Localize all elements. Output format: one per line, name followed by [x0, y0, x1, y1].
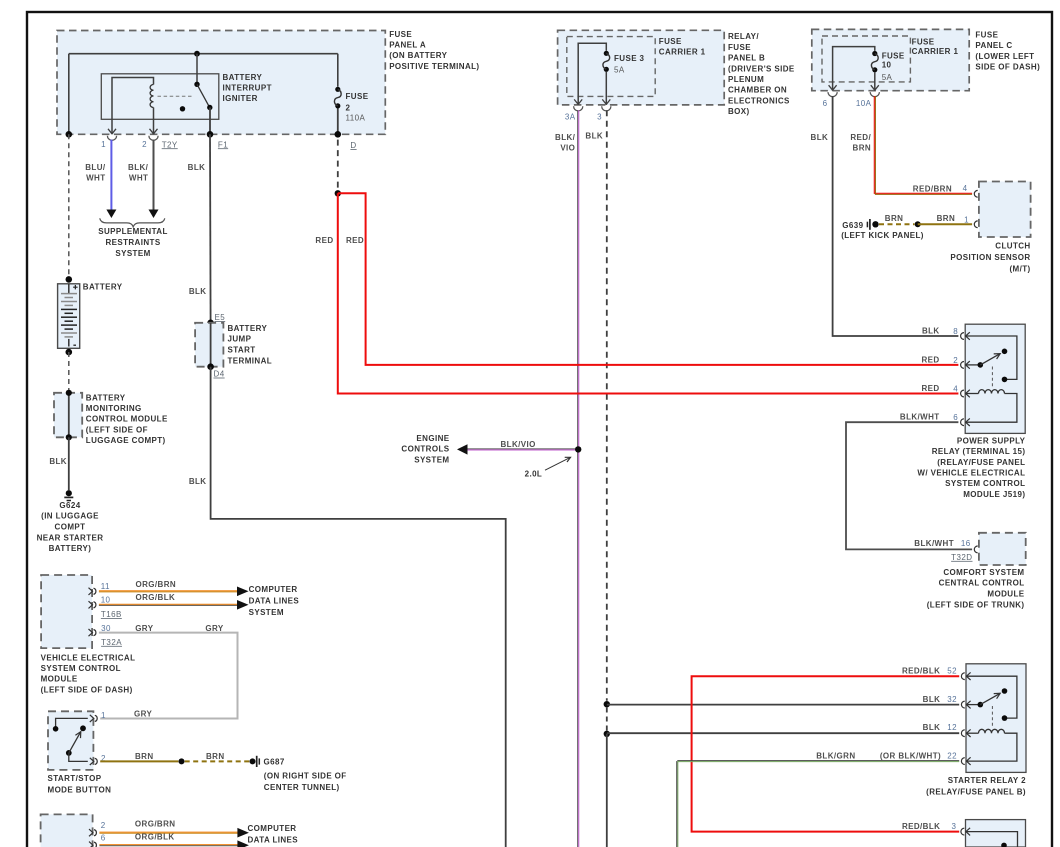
node D4: [207, 363, 224, 378]
svg-text:SYSTEM CONTROL: SYSTEM CONTROL: [41, 664, 121, 673]
pin 1 (clutch sensor): [974, 221, 977, 228]
vehicle electrical system control module label: [41, 653, 136, 694]
node: red feed split: [335, 190, 341, 196]
svg-text:RELAY (TERMINAL 15): RELAY (TERMINAL 15): [932, 447, 1026, 456]
power supply relay label: [917, 436, 1025, 499]
starter relay 2 label: [926, 776, 1026, 797]
ground G687 label: [264, 757, 347, 792]
svg-text:POSITIVE TERMINAL): POSITIVE TERMINAL): [389, 62, 479, 71]
svg-text:4: 4: [953, 385, 958, 394]
svg-text:FUSE: FUSE: [659, 37, 682, 46]
svg-text:G624: G624: [59, 501, 80, 510]
svg-text:(ON RIGHT SIDE OF: (ON RIGHT SIDE OF: [264, 771, 347, 780]
wire RED/BRN (fuse 10 to clutch sensor): [850, 96, 972, 194]
wire BLK/WHT (pin 2 to SRS): [128, 140, 158, 218]
node: bus junction: [194, 51, 200, 57]
node E5: [207, 313, 225, 326]
svg-text:CARRIER 1: CARRIER 1: [912, 47, 959, 56]
fuse panel A box: [57, 31, 385, 135]
svg-text:INTERRUPT: INTERRUPT: [223, 84, 272, 93]
terminal T32A: [101, 638, 122, 647]
svg-text:3A: 3A: [565, 112, 576, 121]
svg-text:G687: G687: [264, 757, 285, 766]
svg-text:BATTERY: BATTERY: [223, 73, 263, 82]
wire RED/BLK (pin 52 loop to bottom relay): [692, 676, 960, 831]
svg-text:RED: RED: [315, 236, 333, 245]
svg-text:BLK: BLK: [585, 131, 603, 140]
battery monitoring control module label: [86, 393, 168, 445]
wire BRN dashed (to G687): [185, 760, 250, 762]
svg-text:ORG/BRN: ORG/BRN: [135, 820, 176, 829]
power supply relay box: [965, 324, 1025, 433]
svg-text:DATA LINES: DATA LINES: [248, 836, 299, 845]
svg-text:START/STOP: START/STOP: [48, 774, 102, 783]
fuse carrier 1 box (panel B): [567, 37, 655, 97]
fuse panel A label: [389, 30, 479, 71]
node: splice to starter relay pin 12: [604, 731, 610, 737]
wire BLK dashed (node D down): [337, 140, 339, 190]
svg-text:RED/BLK: RED/BLK: [902, 822, 940, 831]
svg-text:BRN: BRN: [885, 214, 904, 223]
svg-text:BATTERY: BATTERY: [86, 393, 126, 402]
pin 16 / T32D: [951, 546, 978, 562]
svg-text:ORG/BRN: ORG/BRN: [136, 580, 177, 589]
svg-text:ORG/BLK: ORG/BLK: [135, 832, 175, 841]
ground G624: [64, 490, 73, 500]
pin 6 / wire ORG/BLK (bottom): [89, 832, 249, 847]
svg-text:SUPPLEMENTAL: SUPPLEMENTAL: [98, 227, 168, 236]
fuse panel C box: [812, 29, 969, 90]
svg-text:COMFORT SYSTEM: COMFORT SYSTEM: [943, 568, 1024, 577]
svg-text:T32A: T32A: [101, 638, 122, 647]
battery B1: [58, 276, 80, 355]
battery interrupt igniter label: [223, 73, 272, 103]
pin 30 / wire GRY: [89, 624, 238, 719]
arrow to engine controls: [457, 444, 468, 454]
node: BLK/VIO tap: [575, 446, 581, 452]
svg-text:(RELAY/FUSE PANEL B): (RELAY/FUSE PANEL B): [926, 787, 1026, 796]
pin 32: [923, 695, 971, 708]
wire BLK/VIO (pin 3A down): [555, 110, 579, 847]
svg-text:(ON BATTERY: (ON BATTERY: [389, 51, 447, 60]
svg-text:CENTER TUNNEL): CENTER TUNNEL): [264, 783, 340, 792]
svg-text:GRY: GRY: [205, 624, 224, 633]
svg-text:6: 6: [823, 99, 828, 108]
svg-text:POSITION SENSOR: POSITION SENSOR: [950, 253, 1030, 262]
svg-text:COMPUTER: COMPUTER: [249, 585, 298, 594]
svg-text:RED: RED: [922, 355, 940, 364]
svg-text:POWER SUPPLY: POWER SUPPLY: [957, 436, 1026, 445]
terminal T16B: [101, 610, 122, 619]
svg-text:T2Y: T2Y: [162, 140, 178, 149]
fuse F10 5A: [871, 51, 878, 91]
svg-text:BLK: BLK: [922, 326, 940, 335]
node: panel A left exit: [66, 131, 73, 138]
svg-text:FUSE: FUSE: [975, 31, 998, 40]
wire RED (split to relay pin 2): [338, 193, 959, 365]
svg-text:6: 6: [101, 833, 106, 842]
svg-text:MONITORING: MONITORING: [86, 404, 142, 413]
pin 6 (panel C): [823, 85, 838, 108]
svg-text:ORG/BLK: ORG/BLK: [136, 593, 176, 602]
svg-text:11: 11: [101, 582, 110, 591]
starter relay 1 box (partial): [966, 820, 1026, 847]
clutch position sensor label: [950, 241, 1030, 273]
ground G624 label: [37, 501, 104, 553]
svg-text:2: 2: [101, 821, 106, 830]
node F1: [207, 131, 229, 149]
svg-text:MODULE: MODULE: [987, 590, 1024, 599]
pin 6: [900, 413, 970, 426]
svg-text:BRN: BRN: [206, 752, 225, 761]
svg-text:FUSE: FUSE: [912, 37, 935, 46]
svg-text:BLK/WHT: BLK/WHT: [900, 413, 940, 422]
wire: fuse 10 feed loop: [833, 47, 875, 91]
svg-text:30: 30: [101, 624, 111, 633]
svg-text:RED/: RED/: [850, 133, 871, 142]
comfort system central control module label: [927, 568, 1025, 609]
fuse carrier 1 box (panel C): [822, 36, 910, 82]
pin 2: [922, 355, 970, 368]
wire BLK (splice to pin 12): [607, 732, 959, 734]
wire BLK (splice to pin 32): [607, 704, 959, 706]
pin 3 (bottom relay): [902, 822, 970, 835]
switch (starter relay 2): [966, 688, 1007, 707]
svg-text:COMPUTER: COMPUTER: [248, 824, 297, 833]
pin 4 (clutch sensor): [974, 190, 977, 197]
svg-text:FUSE 3: FUSE 3: [614, 54, 645, 63]
svg-text:2: 2: [346, 103, 351, 112]
svg-text:(LEFT SIDE OF DASH): (LEFT SIDE OF DASH): [41, 685, 133, 694]
svg-text:BRN: BRN: [853, 144, 872, 153]
fuse F2 label: [346, 92, 369, 122]
vehicle electrical system control module box: [41, 575, 92, 648]
start/stop mode button label: [48, 774, 112, 794]
ground G639: [842, 219, 878, 230]
svg-text:VIO: VIO: [560, 143, 575, 152]
svg-text:RED/BRN: RED/BRN: [913, 185, 952, 194]
battery label: [83, 282, 123, 291]
svg-text:BLK: BLK: [923, 723, 941, 732]
svg-text:D: D: [350, 141, 356, 150]
relay/fuse panel B box: [558, 30, 725, 105]
svg-text:3: 3: [597, 112, 602, 121]
pin 2 / wire ORG/BRN (bottom): [89, 820, 249, 838]
svg-text:VEHICLE ELECTRICAL: VEHICLE ELECTRICAL: [41, 653, 136, 662]
fuse carrier 1 label (panel C): [912, 37, 959, 56]
svg-text:DATA LINES: DATA LINES: [249, 597, 300, 606]
fuse F3 5A: [603, 51, 610, 105]
wire BLK to G624: [49, 437, 68, 490]
svg-text:8: 8: [953, 327, 958, 336]
svg-text:PANEL A: PANEL A: [389, 41, 426, 50]
svg-text:SIDE OF DASH): SIDE OF DASH): [975, 63, 1040, 72]
wire: starter relay fixed contact loop: [966, 676, 1017, 721]
svg-text:TERMINAL: TERMINAL: [228, 356, 273, 365]
dashed actuator link (power supply relay): [991, 367, 993, 389]
svg-text:FUSE: FUSE: [882, 52, 905, 61]
pin 8: [922, 326, 970, 339]
wire BLU/WHT (pin 1 to SRS): [85, 140, 116, 218]
node: BRN splice: [915, 221, 921, 227]
svg-text:BLK: BLK: [49, 457, 67, 466]
svg-text:NEAR STARTER: NEAR STARTER: [37, 533, 104, 542]
coil (igniter): [150, 85, 153, 108]
svg-text:D4: D4: [214, 370, 225, 379]
svg-text:4: 4: [963, 184, 968, 193]
svg-text:STARTER RELAY 2: STARTER RELAY 2: [948, 776, 1026, 785]
wire BRN to clutch pin 1: [885, 214, 972, 224]
svg-text:2: 2: [142, 140, 147, 149]
svg-text:3: 3: [952, 822, 957, 831]
panel C label: [975, 31, 1040, 72]
wire: panel A bus: [69, 54, 338, 135]
svg-text:CARRIER 1: CARRIER 1: [659, 47, 706, 56]
svg-text:JUMP: JUMP: [228, 335, 252, 344]
fuse carrier 1 label (panel B): [659, 37, 706, 56]
svg-text:(LOWER LEFT: (LOWER LEFT: [975, 52, 1034, 61]
svg-text:CONTROL MODULE: CONTROL MODULE: [86, 415, 168, 424]
battery monitoring control module box: [54, 390, 82, 441]
supplemental restraints system label: [98, 227, 168, 258]
svg-text:RED: RED: [346, 236, 364, 245]
battery jump start terminal label: [228, 324, 273, 365]
2.0L note: [525, 457, 571, 478]
svg-text:E5: E5: [215, 313, 226, 322]
fuse F3 label: [614, 54, 645, 74]
comfort system central control module box: [979, 533, 1026, 565]
svg-text:COMPT: COMPT: [55, 523, 86, 532]
svg-text:52: 52: [947, 667, 957, 676]
svg-text:FUSE: FUSE: [389, 30, 412, 39]
svg-text:2: 2: [953, 356, 958, 365]
dashed actuator link (starter relay 2): [991, 706, 993, 728]
pin 11 / wire ORG/BRN: [89, 580, 249, 596]
wire BLK from D4 down and right: [189, 367, 506, 847]
switch (igniter): [180, 54, 213, 135]
svg-text:BRN: BRN: [937, 214, 956, 223]
wire: battery to monitoring module (dashed): [68, 352, 70, 391]
wire BLK F1 to jump start terminal: [188, 134, 211, 322]
pin 2 (start/stop): [69, 753, 106, 765]
pin 52: [902, 667, 971, 680]
fuse F2 110A: [334, 54, 341, 135]
battery interrupt igniter U1 box: [101, 74, 219, 120]
svg-text:WHT: WHT: [129, 174, 148, 183]
svg-text:BLK: BLK: [923, 695, 941, 704]
ground G639 location label: [841, 231, 924, 240]
svg-text:BATTERY: BATTERY: [228, 324, 268, 333]
wire BRN (to G687): [100, 752, 224, 761]
svg-text:RESTRAINTS: RESTRAINTS: [105, 238, 160, 247]
svg-text:ENGINE: ENGINE: [416, 434, 449, 443]
svg-text:1: 1: [101, 711, 106, 720]
start/stop mode button box: [48, 711, 93, 770]
wire: bottom relay internal: [966, 832, 1018, 847]
svg-text:BLK/VIO: BLK/VIO: [501, 440, 536, 449]
svg-text:12: 12: [947, 723, 957, 732]
svg-text:(OR BLK/WHT): (OR BLK/WHT): [880, 752, 941, 761]
pin 1 (start/stop): [53, 709, 153, 731]
svg-text:SYSTEM: SYSTEM: [115, 249, 150, 258]
svg-text:10: 10: [882, 61, 892, 70]
coil (starter relay 2): [966, 729, 1017, 761]
svg-text:LUGGAGE COMPT): LUGGAGE COMPT): [86, 436, 166, 445]
svg-text:F1: F1: [218, 140, 228, 149]
svg-text:W/ VEHICLE ELECTRICAL: W/ VEHICLE ELECTRICAL: [917, 469, 1025, 478]
pin 2 / terminal T2Y: [142, 119, 178, 149]
panel B label: [728, 32, 795, 116]
svg-text:22: 22: [947, 752, 957, 761]
dashed actuator link: [158, 95, 195, 97]
computer data lines module box (bottom): [41, 814, 93, 847]
svg-text:BATTERY): BATTERY): [49, 544, 92, 553]
wire BLK/GRN (to pin 22): [677, 761, 959, 847]
svg-text:BLK/GRN: BLK/GRN: [816, 752, 855, 761]
svg-text:(LEFT KICK PANEL): (LEFT KICK PANEL): [841, 231, 924, 240]
wire: igniter coil loop: [112, 78, 154, 120]
svg-text:(LEFT SIDE OF: (LEFT SIDE OF: [86, 425, 148, 434]
svg-text:(DRIVER'S SIDE: (DRIVER'S SIDE: [728, 64, 795, 73]
svg-text:(RELAY/FUSE PANEL: (RELAY/FUSE PANEL: [937, 458, 1025, 467]
svg-text:SYSTEM CONTROL: SYSTEM CONTROL: [945, 479, 1025, 488]
svg-text:BRN: BRN: [135, 752, 154, 761]
wire: dashed link between splices: [606, 708, 608, 731]
svg-text:RED/BLK: RED/BLK: [902, 667, 940, 676]
svg-text:PANEL C: PANEL C: [975, 41, 1012, 50]
svg-text:10A: 10A: [856, 99, 872, 108]
ground G687: [250, 756, 260, 767]
svg-text:SYSTEM: SYSTEM: [414, 455, 449, 464]
wire: fuse 3 feed loop: [578, 43, 606, 105]
svg-text:FUSE: FUSE: [728, 43, 751, 52]
svg-text:RELAY/: RELAY/: [728, 32, 759, 41]
engine controls system label: [401, 434, 449, 465]
svg-text:(M/T): (M/T): [1009, 264, 1030, 273]
starter relay 2 box: [966, 664, 1026, 773]
computer data lines system label: [249, 585, 300, 617]
svg-text:T16B: T16B: [101, 610, 122, 619]
svg-text:G639: G639: [842, 221, 863, 230]
svg-text:FUSE: FUSE: [346, 92, 369, 101]
svg-text:BLK/: BLK/: [555, 133, 576, 142]
svg-text:10: 10: [101, 596, 111, 605]
node: BRN splice (start/stop): [179, 758, 185, 764]
svg-text:BLK: BLK: [189, 477, 207, 486]
svg-text:6: 6: [953, 413, 958, 422]
svg-text:(IN LUGGAGE: (IN LUGGAGE: [41, 512, 99, 521]
switch (power supply relay): [965, 349, 1007, 368]
pin 3A: [565, 99, 583, 121]
wire BRN dashed (G639): [879, 223, 915, 225]
svg-text:BLK/: BLK/: [128, 163, 149, 172]
pin 4: [922, 384, 970, 397]
coil (power supply relay): [965, 390, 1017, 423]
wire BLK (splice down): [606, 734, 608, 847]
svg-text:RED: RED: [922, 384, 940, 393]
svg-text:2.0L: 2.0L: [525, 470, 543, 479]
svg-text:IGNITER: IGNITER: [223, 94, 258, 103]
svg-text:CHAMBER ON: CHAMBER ON: [728, 86, 787, 95]
svg-text:1: 1: [101, 140, 106, 149]
svg-text:BLK: BLK: [189, 287, 207, 296]
wire BLK/VIO (to engine controls): [468, 440, 578, 450]
svg-text:BATTERY: BATTERY: [83, 282, 123, 291]
computer data lines label (bottom): [248, 824, 299, 845]
node D: [335, 131, 357, 150]
brace to SRS: [100, 218, 165, 227]
svg-text:(LEFT SIDE OF TRUNK): (LEFT SIDE OF TRUNK): [927, 600, 1025, 609]
svg-text:GRY: GRY: [135, 624, 154, 633]
svg-text:CLUTCH: CLUTCH: [995, 241, 1030, 250]
svg-text:PLENUM: PLENUM: [728, 75, 764, 84]
pin 12: [923, 723, 971, 737]
svg-text:CONTROLS: CONTROLS: [401, 445, 449, 454]
svg-text:1: 1: [964, 215, 969, 224]
fuse F10 label: [882, 52, 905, 83]
clutch position sensor box: [979, 182, 1031, 238]
node: splice to starter relay pin 32: [604, 701, 610, 707]
svg-text:BLK: BLK: [811, 133, 829, 142]
svg-text:16: 16: [961, 539, 971, 548]
pin 3: [597, 99, 611, 121]
svg-text:CENTRAL CONTROL: CENTRAL CONTROL: [939, 579, 1025, 588]
svg-text:BLU/: BLU/: [85, 163, 106, 172]
battery jump start terminal box: [195, 323, 223, 367]
svg-text:110A: 110A: [346, 113, 366, 122]
svg-text:WHT: WHT: [86, 174, 105, 183]
pin 22: [816, 752, 970, 765]
svg-text:5A: 5A: [882, 73, 893, 82]
switch (start/stop): [66, 725, 86, 755]
wire RED (split to relay pin 4): [315, 193, 958, 393]
svg-text:BLK: BLK: [188, 163, 206, 172]
wire: relay fixed contact loop: [965, 336, 1017, 382]
svg-text:START: START: [228, 346, 256, 355]
svg-text:32: 32: [947, 695, 957, 704]
svg-text:MODULE: MODULE: [41, 675, 78, 684]
svg-text:GRY: GRY: [134, 709, 153, 718]
svg-text:T32D: T32D: [951, 553, 972, 562]
pin 1 (igniter): [101, 119, 116, 149]
svg-text:PANEL B: PANEL B: [728, 54, 765, 63]
svg-text:MODE BUTTON: MODE BUTTON: [48, 785, 112, 794]
wire BLK/WHT (relay pin 6 to T32D): [846, 422, 972, 549]
wire BLK dashed (pin 3 down): [585, 110, 606, 701]
svg-text:MODULE J519): MODULE J519): [963, 490, 1025, 499]
wire BLK (panel C pin 6 to relay pin 8): [811, 96, 959, 336]
pin 10A: [856, 85, 880, 108]
svg-text:BLK/WHT: BLK/WHT: [914, 539, 954, 548]
wire: panel A to battery (dashed): [68, 134, 70, 276]
svg-text:SYSTEM: SYSTEM: [249, 608, 284, 617]
svg-text:5A: 5A: [614, 65, 625, 74]
svg-text:BOX): BOX): [728, 107, 750, 116]
svg-text:ELECTRONICS: ELECTRONICS: [728, 96, 790, 105]
pin 10 / wire ORG/BLK: [89, 593, 249, 609]
